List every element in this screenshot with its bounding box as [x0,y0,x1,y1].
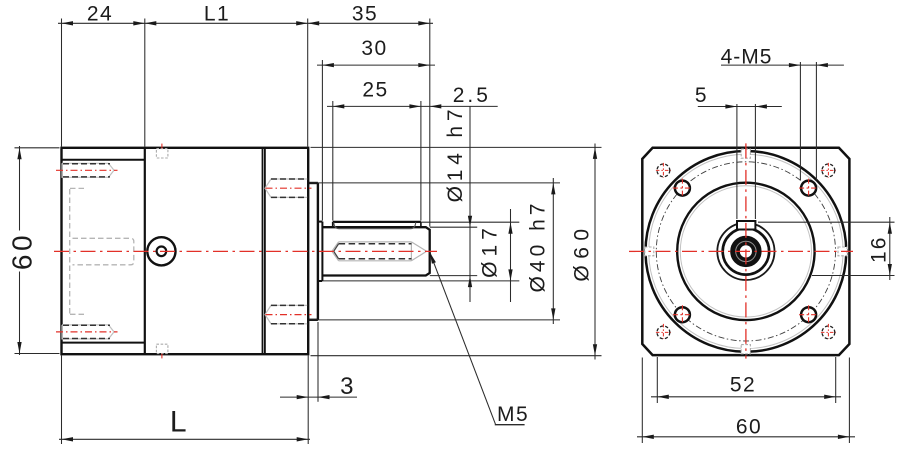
drill point [334,244,339,252]
svg-text:24: 24 [87,3,113,26]
d14 dim line [469,106,471,302]
ext line collar [321,60,323,221]
svg-text:52: 52 [730,374,756,397]
svg-text:2.5: 2.5 [453,84,491,107]
tapped hole M5 thread (grey) [332,242,427,261]
ext line keyway left [332,101,334,221]
ext line L left [61,356,63,445]
motor screw axes [56,169,118,171]
housing/front-flange double joint [262,148,264,354]
4-M5 [789,63,801,67]
screw hole M5 top-left [675,181,690,196]
25 [333,104,345,108]
60 bottom [642,435,654,439]
30 [322,63,334,67]
flange screw bottom (hidden) [265,305,308,323]
body circle [646,151,847,352]
2.5 [430,104,442,108]
d40 dim line [552,178,554,324]
top dim chain line 24 / L1 / 35 [58,22,433,24]
square flange with chamfered corners [642,148,849,355]
motor screw bottom (hidden) [62,325,114,339]
svg-text:4-M5: 4-M5 [721,46,773,69]
pilot circle d40 [677,183,814,320]
24 [62,21,74,25]
dim line 16 [889,217,891,280]
svg-text:25: 25 [362,78,388,101]
svg-text:3: 3 [340,373,355,400]
d17 ext top (key line ext) [421,221,519,223]
ext lines M5 hole [799,62,801,180]
gearbox body outline [62,148,309,354]
d17 [508,222,512,234]
ext lines 60 left [15,147,60,149]
flange screw top (hidden) [265,179,308,197]
ext lines 52 [656,357,658,403]
ext lines 60 bottom [641,358,643,444]
5 [725,104,737,108]
L [62,437,74,441]
d60 ext bottom [311,355,602,357]
M5 leader line [430,252,496,424]
ext line face below [307,356,309,445]
flange screw axes [266,187,312,189]
d60 dim line [594,144,596,360]
M5 underline [495,424,525,426]
bolt circle 52 (dash-dot) [656,162,835,341]
ext line left edge [61,19,63,147]
corner hole crosses [656,163,836,339]
corner hole top-right (hidden) [822,164,835,177]
d40 ext bottom [309,319,560,321]
d17 dim line [510,209,512,302]
d60 ext top [311,146,602,148]
edge notch left (grey) [645,247,654,256]
60 left [17,148,21,160]
corner hole top-left (hidden) [657,164,670,177]
svg-text:60: 60 [736,415,762,438]
d40 [551,183,555,195]
d14 [468,216,472,228]
edge notch top (grey) [741,149,750,158]
adapter plate inner line top [62,159,145,161]
pilot chamfer circle (grey) [680,186,811,317]
spigot circle (grey) [649,154,843,348]
svg-text:M5: M5 [497,403,529,426]
ext line face [307,19,309,147]
screw hole M5 top-right [801,181,816,196]
notch tick bottom [161,354,163,359]
front view horizontal axis [629,250,853,252]
52 [657,395,669,399]
ext line 16 top [758,221,895,223]
svg-text:60: 60 [7,232,38,270]
d14 ext top [430,226,477,228]
key in keyway [737,221,755,230]
svg-text:30: 30 [361,37,387,60]
ext line keyway right [420,101,422,221]
dim line 60 left [19,146,21,231]
dim line 60 bottom [637,436,855,438]
d40 ext top [309,182,560,184]
d14 ext bottom [430,275,477,277]
key [333,221,421,223]
M5 hole crosses [673,179,818,325]
edge notch bottom (grey) [741,345,750,354]
d60 [593,147,597,159]
top edge notch (grey) [156,149,168,158]
keyway floor [334,222,416,228]
notch tick top [161,144,163,149]
35 [308,21,320,25]
svg-text:Ø14 h7: Ø14 h7 [444,105,467,203]
joint line between adapter and housing [144,148,146,354]
svg-text:Ø60: Ø60 [571,222,594,281]
collar circle d17 [717,223,774,280]
ext line boss face below [317,322,319,402]
corner hole bottom-left (hidden) [657,326,670,339]
M5 leader arrow [428,252,436,264]
hidden pilot bore (grey) [70,188,134,314]
housing plug circle [147,237,175,265]
screw hole M5 bottom-right [801,307,816,322]
corner hole bottom-right (hidden) [822,326,835,339]
dim line 25 / 2.5 [327,105,498,107]
dim line 5 [698,106,782,108]
shaft collar [321,222,323,281]
dim line 4-M5 [721,64,844,66]
svg-text:Ø40 h7: Ø40 h7 [527,200,550,293]
ext lines keyway width [736,104,738,219]
svg-text:5: 5 [695,84,708,107]
ext line 16 bottom [812,275,895,277]
ext line shaft end [429,19,431,227]
d17 ext bottom [323,280,519,282]
dim line L [59,438,310,440]
svg-text:Ø17: Ø17 [479,223,502,278]
output shaft [322,227,429,275]
tapped hole M5 (hidden, dashed) [339,244,412,259]
bottom edge notch (grey) [156,344,168,353]
adapter plate inner line bottom [62,342,145,344]
shaft circle d14 [723,228,769,274]
ext line joint [144,19,146,147]
dim line 30 [317,64,435,66]
svg-text:L1: L1 [204,3,230,26]
front view vertical axis [745,143,747,358]
center hole rings [735,241,757,263]
svg-text:L: L [170,406,188,439]
motor screw top (hidden) [62,163,114,177]
svg-text:35: 35 [352,3,378,26]
16 [888,222,892,234]
pilot boss [308,182,318,184]
edge notch right (grey) [838,247,847,256]
dim line 52 [651,396,841,398]
dim line 3 [280,396,357,398]
L1 [145,21,157,25]
screw hole M5 bottom-left [675,307,690,322]
svg-text:16: 16 [868,236,891,263]
main axis side view [54,250,437,252]
3 [297,395,309,399]
